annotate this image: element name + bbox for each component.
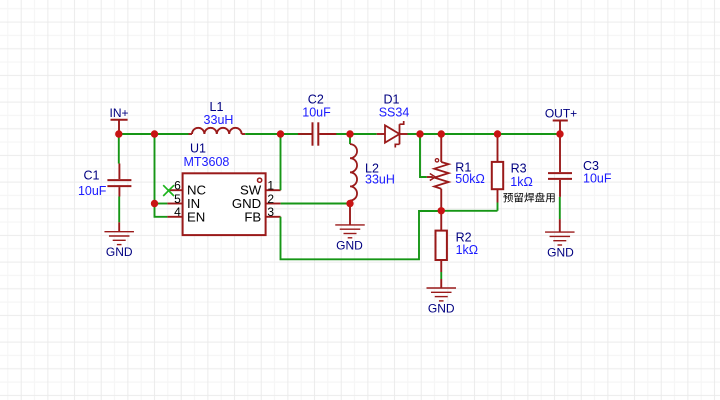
svg-text:IN+: IN+ [109, 106, 128, 120]
pin 4 stub (EN) [167, 216, 182, 218]
wire U1 GND pin to L2 [281, 203, 350, 205]
value 1kΩ (R2) [456, 243, 479, 257]
pin number 4 [174, 205, 181, 219]
pin 5 stub (IN) [167, 203, 182, 205]
ground symbol (C1) [104, 222, 134, 244]
inductor L2 [350, 144, 357, 200]
svg-text:3: 3 [267, 205, 274, 219]
ground symbol (C3) [545, 219, 575, 245]
junction node rail/IN+/C1 [115, 130, 122, 137]
wire R3 top lead [497, 134, 499, 162]
svg-text:10uF: 10uF [78, 184, 107, 198]
pin number 3 [267, 205, 274, 219]
value MT3608 (U1) [184, 155, 230, 169]
net label OUT+ [545, 107, 577, 121]
value 1kΩ (R3) [510, 175, 533, 189]
pin name FB [244, 209, 261, 224]
svg-text:33uH: 33uH [204, 113, 234, 127]
pin name NC [187, 183, 207, 198]
junction node rail/R3 [494, 130, 501, 137]
ground symbol (R2) [427, 279, 457, 301]
wire R2 top lead [440, 211, 442, 231]
value 10uF (C1) [78, 184, 107, 198]
svg-text:FB: FB [244, 209, 261, 224]
inductor L1 [189, 128, 246, 134]
net label GND (L2) [336, 238, 363, 252]
value 33uH (L2) [365, 173, 395, 187]
wire R1 wiper branch [420, 134, 427, 177]
label L2 [365, 161, 379, 175]
svg-text:10uF: 10uF [302, 106, 331, 120]
diode D1 SS34 [377, 121, 408, 148]
wire input rail segment [119, 133, 189, 135]
junction node rail/OUT+/C3 [556, 130, 563, 137]
label C1 [84, 169, 100, 183]
net label GND (C3) [547, 246, 574, 260]
svg-text:C1: C1 [84, 169, 100, 183]
junction node L2/GND net [346, 200, 353, 207]
svg-text:C2: C2 [308, 92, 324, 106]
svg-text:5: 5 [174, 192, 181, 206]
svg-text:MT3608: MT3608 [184, 155, 230, 169]
svg-text:1: 1 [267, 179, 274, 193]
junction node rail/R1 wiper [416, 130, 423, 137]
pin name EN [187, 209, 205, 224]
pin number 5 [174, 192, 181, 206]
pin 6 stub (NC) [167, 189, 182, 191]
svg-text:OUT+: OUT+ [545, 107, 577, 121]
wire OUT+ stub [559, 121, 561, 135]
junction node rail/SW [277, 130, 284, 137]
label L1 [210, 100, 224, 114]
potentiometer wiper arrow [427, 174, 436, 181]
wire R1 bottom lead [440, 189, 442, 211]
wire C3 top lead [559, 134, 561, 172]
capacitor C2 [313, 122, 319, 145]
label D1 [384, 92, 400, 106]
svg-text:2: 2 [267, 192, 274, 206]
pin number 6 [174, 179, 181, 193]
junction node IN pin [151, 200, 158, 207]
pin 1 stub (SW) [266, 189, 281, 191]
svg-text:33uH: 33uH [365, 173, 395, 187]
net label GND (R2) [428, 302, 455, 316]
svg-text:R3: R3 [511, 161, 527, 175]
wire C1 bottom lead [118, 187, 120, 222]
wire output rail segment [408, 133, 561, 135]
pin 3 stub (FB) [266, 216, 281, 218]
junction node rail/U1 inputs [151, 130, 158, 137]
svg-text:6: 6 [174, 179, 181, 193]
svg-text:1kΩ: 1kΩ [510, 175, 533, 189]
svg-text:GND: GND [428, 302, 455, 316]
svg-text:GND: GND [547, 246, 574, 260]
label C2 [308, 92, 324, 106]
value 10uF (C2) [302, 106, 331, 120]
pin name GND [232, 196, 261, 211]
no-connect X on pin 6 [163, 185, 174, 196]
svg-text:SS34: SS34 [379, 106, 410, 120]
label R3 [511, 161, 527, 175]
label R2 [456, 230, 472, 244]
svg-text:4: 4 [174, 205, 181, 219]
pin 2 stub (GND) [266, 203, 281, 205]
svg-text:10uF: 10uF [583, 172, 612, 186]
wire L2 top stub [349, 134, 351, 144]
value SS34 (D1) [379, 106, 410, 120]
note text 预留焊盘用 (reserved pad) [503, 192, 554, 202]
capacitor C1 [107, 180, 131, 186]
resistor R1 (potentiometer) [434, 159, 448, 189]
svg-text:50kΩ: 50kΩ [455, 172, 485, 186]
wire SW pin to rail [280, 134, 282, 190]
value 10uF (C3) [583, 172, 612, 186]
op-amp/IC U1 MT3608 body [183, 173, 266, 235]
wire FB feedback route [281, 211, 442, 259]
wire C2 to D1 [319, 133, 376, 135]
label R1 [455, 160, 471, 174]
pin number 2 [267, 192, 274, 206]
wire C3 bottom lead [559, 180, 561, 219]
resistor R2 [436, 231, 447, 260]
ground symbol (L2) [335, 204, 365, 238]
wire rail to IN/EN pins [155, 134, 168, 217]
resistor R3 [492, 162, 503, 189]
wire R2 bottom lead [440, 260, 442, 279]
pin name IN [187, 196, 200, 211]
svg-text:D1: D1 [384, 92, 400, 106]
value 50kΩ (R1) [455, 172, 485, 186]
wire IN+ stub [118, 120, 120, 134]
wire L1 to C2 [245, 133, 311, 135]
label U1 [190, 142, 206, 156]
svg-text:U1: U1 [190, 142, 206, 156]
svg-text:1kΩ: 1kΩ [456, 243, 479, 257]
wire junction row to R3 [441, 210, 497, 212]
pin number 1 [267, 179, 274, 193]
value 33uH (L1) [204, 113, 234, 127]
svg-text:EN: EN [187, 209, 205, 224]
junction node rail/R1 [438, 130, 445, 137]
svg-text:GND: GND [106, 245, 133, 259]
net label GND (C1) [106, 245, 133, 259]
net label IN+ [109, 106, 128, 120]
junction node rail/L2/C2 [346, 130, 353, 137]
capacitor C3 [548, 173, 572, 179]
pin name SW [240, 183, 262, 198]
wire R3 bottom lead [497, 189, 499, 211]
junction node R1/R2/R3/FB [438, 207, 445, 214]
svg-text:GND: GND [336, 238, 363, 252]
svg-text:L1: L1 [210, 100, 224, 114]
label C3 [583, 159, 599, 173]
wire R1 top lead [440, 134, 442, 162]
wire C1 top lead [118, 134, 121, 179]
